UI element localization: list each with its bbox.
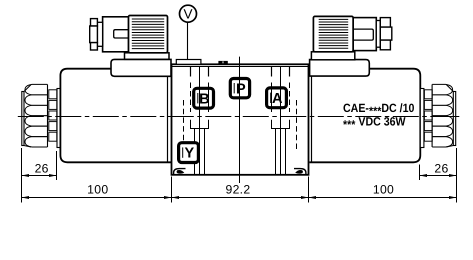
- horizontal axis centerline: [18, 116, 459, 118]
- left connector cap plate on solenoid: [111, 59, 171, 76]
- dimension extension lines: [22, 148, 457, 203]
- svg-text:100: 100: [373, 183, 394, 197]
- left connector main block: [128, 16, 167, 53]
- port Y label: [179, 143, 199, 163]
- valve body: [172, 64, 309, 175]
- dim 100 left: [22, 183, 172, 199]
- left connector ridges: [132, 18, 164, 20]
- dim 26 left: [22, 161, 57, 177]
- valve top second line: [172, 66, 309, 68]
- small bump on valve top: [218, 61, 227, 64]
- V leader line: [187, 22, 189, 60]
- right solenoid armature tube line: [311, 69, 313, 163]
- dim 100 right: [309, 183, 457, 199]
- port B bore centerline: [200, 67, 209, 175]
- right cable gland body: [353, 18, 376, 51]
- left manual-override knurled knob: [22, 84, 57, 147]
- right gland ring: [376, 21, 380, 48]
- svg-text:V: V: [183, 6, 192, 21]
- port B hidden bore lines: [191, 67, 209, 175]
- right connector base plate: [311, 52, 354, 60]
- port P label: [230, 79, 249, 98]
- left gland slot: [114, 30, 129, 38]
- port A hidden bore lines: [272, 67, 290, 175]
- right gland nut: [380, 18, 390, 28]
- valve vertical centerline: [239, 57, 241, 183]
- right connector cap plate: [310, 60, 370, 77]
- gauge point V circle: [180, 5, 197, 22]
- left gland ring: [97, 22, 102, 46]
- port A label: [267, 88, 287, 108]
- dim 92.2: [172, 183, 309, 199]
- outer hidden dashed lines: [184, 100, 297, 150]
- svg-text:A: A: [272, 91, 283, 107]
- left solenoid armature tube line: [167, 69, 169, 163]
- right knob neck: [420, 89, 424, 148]
- svg-text:100: 100: [87, 183, 108, 197]
- svg-text:26: 26: [434, 161, 448, 175]
- left cable gland body: [103, 17, 129, 52]
- right mounting hook: [294, 169, 306, 175]
- svg-text:26: 26: [35, 161, 49, 175]
- port A bore centerline: [272, 67, 281, 175]
- right connector ridges: [319, 18, 349, 20]
- right manual-override knurled knob: [424, 84, 455, 147]
- left knob neck: [57, 89, 60, 148]
- right gland slot: [353, 29, 373, 40]
- left solenoid body: [60, 69, 171, 163]
- gauge port boss on valve top: [176, 60, 201, 65]
- chained dimension line: [22, 197, 457, 199]
- right connector main block: [313, 16, 353, 51]
- left mounting hook: [174, 169, 186, 175]
- svg-text:Y: Y: [184, 146, 194, 162]
- left gland nut: [91, 19, 98, 26]
- dim 26 right: [420, 161, 457, 177]
- right solenoid body: [310, 69, 421, 163]
- svg-text:92.2: 92.2: [226, 183, 251, 197]
- left connector base plate: [125, 53, 170, 60]
- svg-text:P: P: [236, 81, 246, 97]
- port B label: [194, 88, 214, 108]
